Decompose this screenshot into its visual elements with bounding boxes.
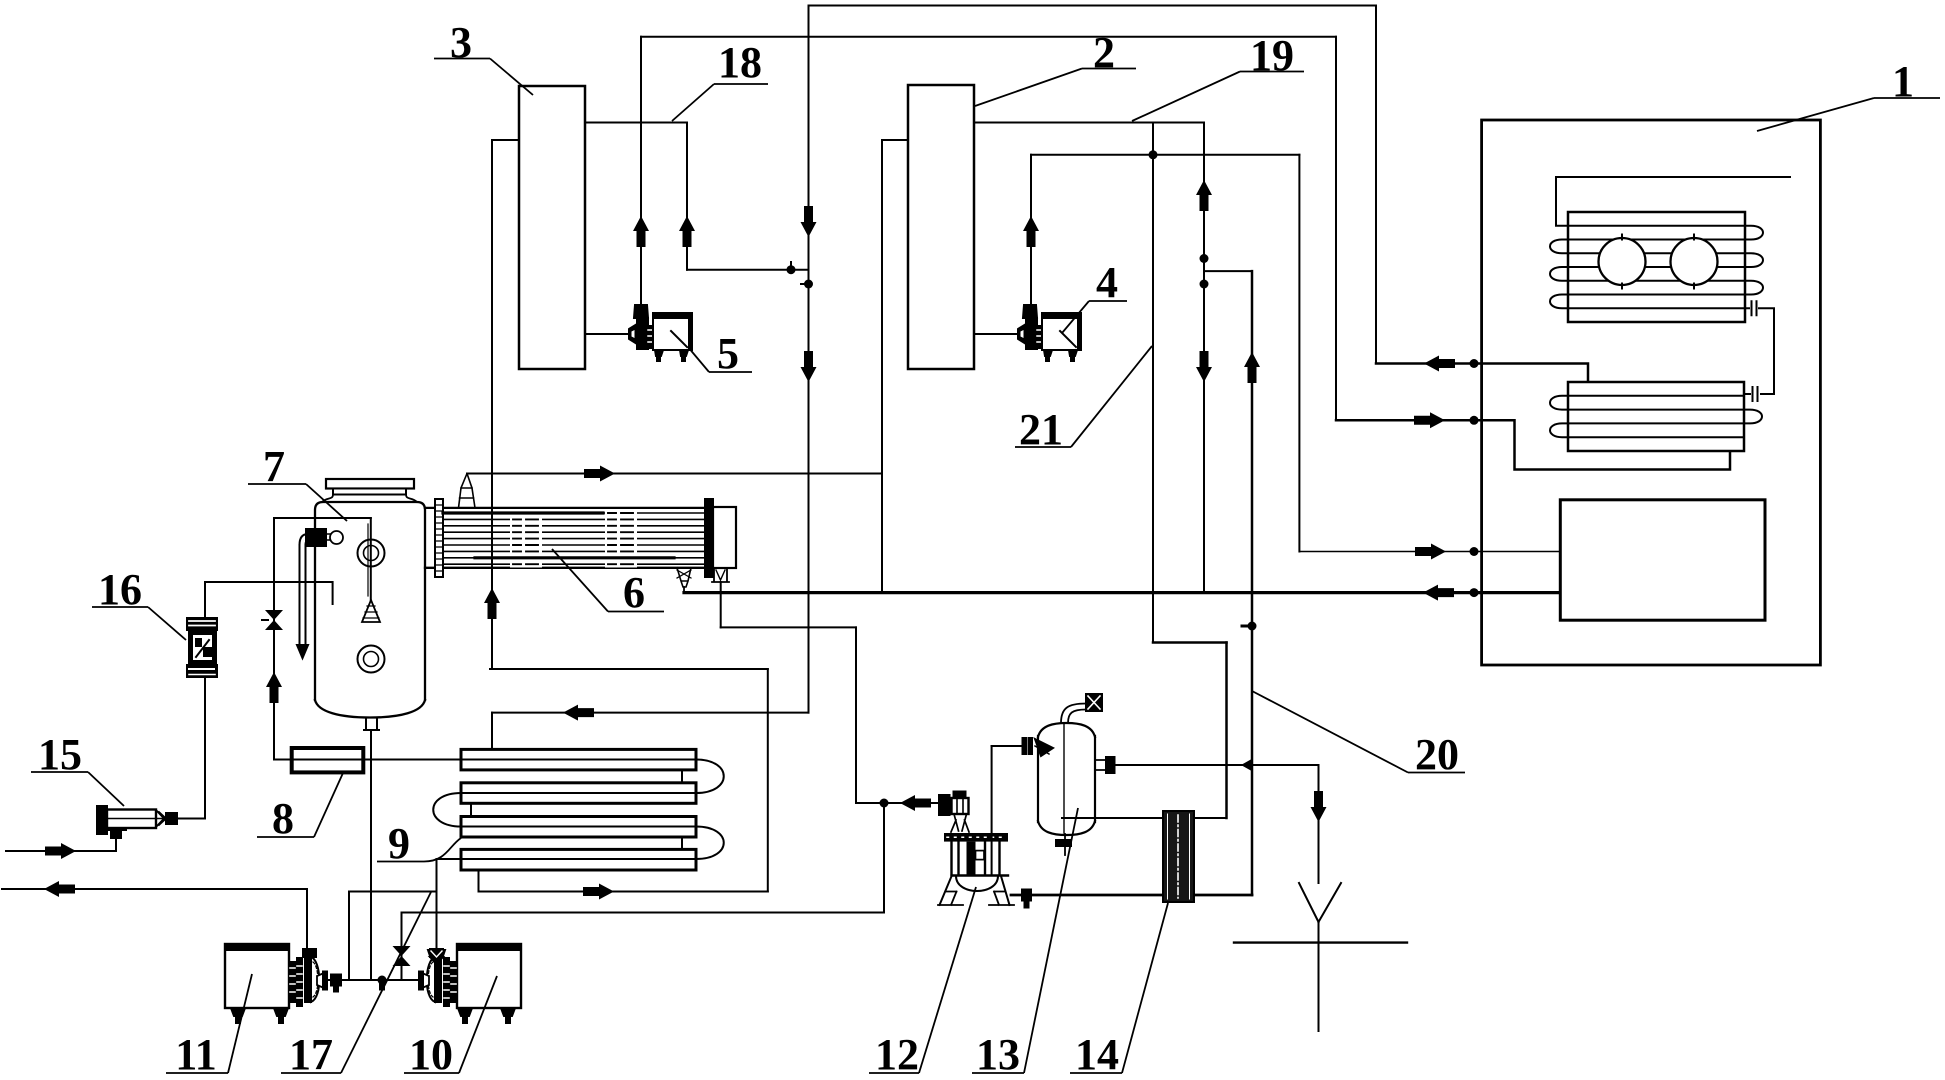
coil right bend lower [696,827,724,860]
wire separator gas out y765 [1114,764,1319,766]
right tube sheet [705,499,713,577]
wire entry line y420 to box1 [1336,420,1730,469]
svg-text:10: 10 [409,1030,453,1079]
inlet arrow inside [1035,739,1053,756]
condenser tube row [1556,225,1745,227]
wire y891 coil outlet run [479,891,768,893]
condenser tube row [1568,266,1745,268]
condenser right bend [1745,253,1763,267]
svg-text:14: 14 [1075,1030,1119,1079]
wire inlet line y850 [6,838,116,851]
filter drier 14 [1163,811,1194,902]
wire entry line y363 to box1 [1376,364,1588,383]
storage vessel 7 shell [315,502,425,700]
coupling [290,962,295,1002]
sight glass lower [358,646,385,673]
wire y155 to right [1031,154,1299,156]
svg-text:12: 12 [875,1030,919,1079]
exchanger tube [443,525,705,527]
water tank of unit 1 [1560,500,1765,620]
subcooler left bend [1550,423,1568,437]
pump 5 [629,324,637,344]
pump 11 [303,949,316,957]
wire stub into tower3 left [492,139,519,141]
vent valve fitting [1086,694,1102,711]
discharge tee fitting [331,975,341,986]
separator bottom drain stub [1064,834,1066,855]
bold tube rows [443,511,603,514]
exchanger tube [443,563,705,565]
wire top loop lower y37 [641,36,1336,38]
drain funnel [1299,883,1341,922]
separator inlet flanges [1023,738,1027,754]
ejector 15 [97,806,107,834]
svg-text:13: 13 [976,1030,1020,1079]
wire spray feed y518 [274,517,371,519]
condenser right bend [1745,281,1763,295]
storage vessel 7 top flange [326,479,414,489]
union coupling lower [1753,387,1758,401]
wire y669 connector [490,668,768,670]
subcooler tube row [1568,395,1744,397]
separator right outlet nozzle [1095,760,1106,770]
coil right bend upper [696,760,724,794]
wire vertical 1336 down right [1335,37,1337,421]
subcooler tube row [1568,436,1744,438]
pump 12 unit [938,792,1014,906]
wire y803 to pump12 [856,802,940,804]
subcooler coil core (lower) [1568,382,1744,451]
absorber tower 3 [519,86,585,369]
svg-text:4: 4 [1096,258,1118,307]
motor 11 [225,944,289,1008]
generator tower 2 [908,85,974,369]
coil pass [461,783,696,804]
svg-text:2: 2 [1093,28,1115,77]
condenser left bend [1550,240,1568,254]
wire vapour line y473 [467,473,882,475]
separator top vent pipes [1061,704,1086,724]
svg-text:8: 8 [272,794,294,843]
preheater 8 [292,748,364,772]
wire stub into tower2 left [882,139,908,141]
coil midlines [437,760,697,860]
flow meter 16 [186,617,218,678]
wire y271 branch [1204,270,1252,272]
wire coil outlet drop [478,870,480,892]
pump10 top check fitting [428,950,445,956]
exchanger tube [443,531,705,533]
subcooler left bend [1550,396,1568,410]
coil pass [461,749,696,770]
vessel 7 center pipe and spray cone [370,518,372,600]
wire pump11 discharge riser [349,892,437,981]
wire coil feed y712 [492,712,809,714]
condenser left bend [1550,295,1568,309]
svg-text:3: 3 [450,18,472,67]
wire rect2 right outlet y122 [974,122,1204,124]
wire vertical 436 to pump10 [436,859,438,949]
condenser tube row [1568,239,1745,241]
wire entry line y551 to box1 [1299,551,1560,553]
wire channel drain down [720,582,722,627]
condenser tube row [1568,294,1745,296]
svg-text:17: 17 [289,1030,333,1079]
condenser left bend [1550,267,1568,281]
svg-text:19: 19 [1250,31,1294,80]
wire tower2 to pump4 [974,333,1020,335]
wire y627 drain run [721,626,856,628]
coil left bend [433,793,461,827]
union coupling upper [1745,307,1749,309]
wire feed line y759 through preheater [274,759,461,761]
unit 1 outer box [1482,120,1821,665]
wire vertical 1376 [1375,6,1377,364]
wire valve riser 401 [401,913,403,981]
dip tube assembly [300,545,306,648]
wire separator bottom out y818 [1062,817,1227,819]
separator vessel 13 [1038,736,1095,822]
wire vertical 492 long [491,140,493,669]
wire y912 crossover [402,912,885,914]
sight glass upper [358,540,385,567]
svg-text:18: 18 [718,38,762,87]
wire vertical 275 [273,518,275,760]
wire vertical 205 through meter 16 [204,582,206,817]
wire return line y889 [2,888,307,890]
pump unit 10 mirrored [419,944,521,1023]
subcooler tube row [1568,422,1744,424]
svg-text:5: 5 [717,329,739,378]
wire rect3 right outlet y122 [585,122,687,124]
wire vessel7 bottom to pumps [370,730,372,980]
wire top loop upper y5 [809,5,1377,7]
wire condenser outlet top [1556,177,1790,224]
condenser right bend [1745,226,1763,240]
wire pump12 to separator y746 [992,745,1023,747]
wire vertical 808 (hot gas main) [808,6,810,713]
wire ejector outlet to vertical 205 [177,818,205,820]
wire tower3 to pump5 [585,333,631,335]
wire drain drop 1318 [1318,765,1320,883]
wire vertical 884 [883,803,885,913]
subcooler tube row [1568,409,1744,411]
wire vertical 641 to pump5 [640,37,642,305]
wire y270 into main [687,269,809,271]
channel head right [713,507,736,568]
subcooler right bend [1744,410,1762,424]
wire main liquid line y592 bold [684,591,1560,594]
shell bottom drain funnel [677,568,691,587]
left tube sheet [435,499,443,577]
exchanger tube [443,550,705,552]
wire y642 [1153,641,1227,644]
wire vertical 1153 (line 21) [1152,123,1154,643]
wire vertical 856 [855,627,857,803]
wire vertical 1226 [1225,643,1228,819]
condenser tube row [1568,252,1745,254]
label 9 leader curve [424,838,461,862]
wire vertical 768 [767,669,769,892]
wire condenser to subcooler [1759,308,1774,394]
exchanger tube [443,544,705,546]
wire vertical 1252 (line 20) [1251,271,1254,895]
coil pass [461,849,696,870]
condenser tube row [1568,280,1745,282]
channel head bottom nozzle [712,568,729,582]
fan circle left [1599,238,1646,285]
vessel 7 bottom dome [315,700,425,718]
exchanger tube [443,557,705,559]
wire vertical 1031 to pump4 [1030,155,1032,305]
condenser tube row [1568,307,1745,309]
condenser coil core (upper) [1568,212,1745,322]
coil pass [461,817,696,838]
exchanger tube [443,512,705,514]
wire coil feed drop 492 [491,713,493,750]
wire y895 line [1011,894,1252,897]
wire pump11 suction drop [306,889,308,948]
wire pump line y980 [327,979,417,981]
exchanger tube [443,518,705,520]
wire vertical 687 [686,123,688,270]
exchanger tube [443,538,705,540]
svg-text:6: 6 [623,568,645,617]
svg-text:11: 11 [175,1030,217,1079]
fan circle right [1671,238,1718,285]
wire vertical 1299 [1298,155,1300,552]
pump 4 (same unit shifted) [1018,305,1081,361]
wire pump12 discharge riser [991,746,993,875]
heat exchanger 6 shell [425,508,705,568]
wire vertical 1204 [1203,123,1205,593]
exchanger top vent nozzle [459,474,476,508]
wire vertical 882 [881,140,883,593]
wire feed y582 with stub [205,582,333,604]
vessel 7 bottom nozzle [364,718,379,731]
